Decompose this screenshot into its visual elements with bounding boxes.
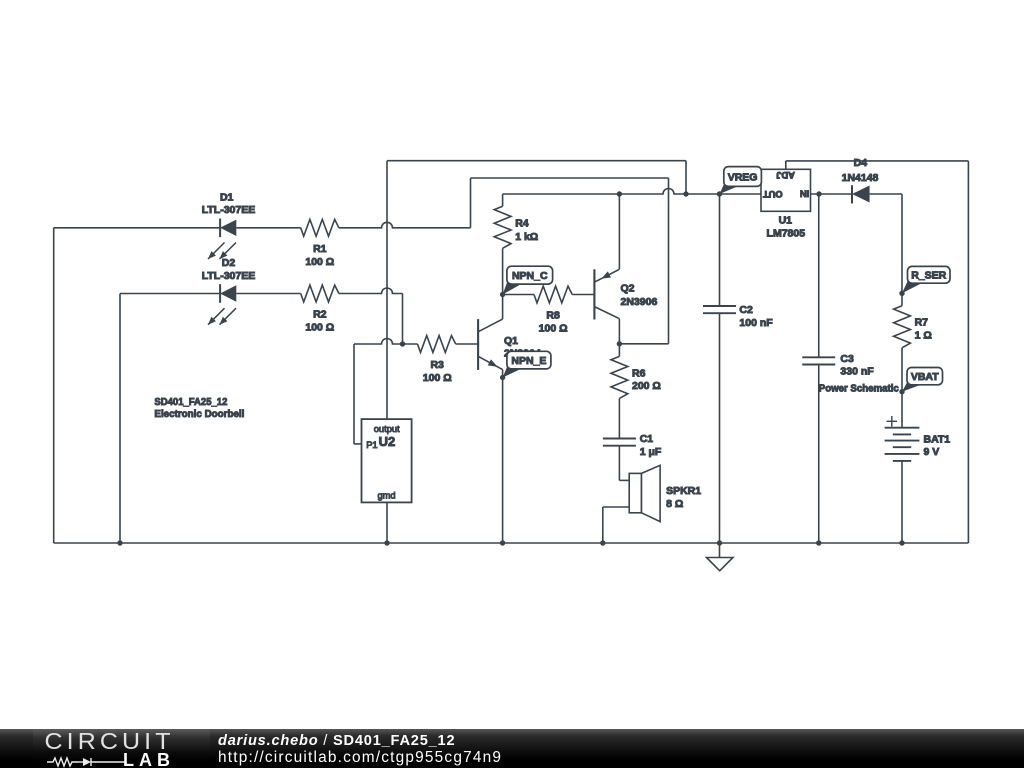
svg-text:R_SER: R_SER bbox=[911, 270, 946, 282]
svg-text:SPKR1: SPKR1 bbox=[666, 485, 701, 497]
svg-text:LM7805: LM7805 bbox=[767, 228, 806, 240]
svg-text:NPN_C: NPN_C bbox=[512, 270, 548, 282]
svg-text:1N4148: 1N4148 bbox=[842, 172, 879, 184]
svg-text:LTL-307EE: LTL-307EE bbox=[202, 204, 255, 216]
svg-text:C3: C3 bbox=[840, 353, 854, 365]
svg-text:VREG: VREG bbox=[728, 171, 758, 183]
svg-text:C2: C2 bbox=[739, 304, 753, 316]
svg-text:Q1: Q1 bbox=[504, 335, 518, 347]
svg-text:U2: U2 bbox=[379, 434, 396, 449]
svg-text:9 V: 9 V bbox=[924, 446, 940, 458]
svg-text:100 Ω: 100 Ω bbox=[539, 323, 568, 335]
svg-text:D1: D1 bbox=[220, 192, 234, 204]
svg-text:1 μF: 1 μF bbox=[640, 446, 662, 458]
svg-text:P1: P1 bbox=[366, 440, 377, 450]
svg-text:330 nF: 330 nF bbox=[840, 366, 874, 378]
svg-text:BAT1: BAT1 bbox=[924, 434, 951, 446]
svg-text:Q2: Q2 bbox=[621, 282, 635, 294]
svg-text:NPN_E: NPN_E bbox=[511, 355, 546, 367]
svg-text:1 kΩ: 1 kΩ bbox=[515, 231, 538, 243]
svg-text:100 Ω: 100 Ω bbox=[305, 256, 334, 268]
svg-text:LTL-307EE: LTL-307EE bbox=[202, 270, 255, 282]
svg-text:100 Ω: 100 Ω bbox=[305, 322, 334, 334]
svg-text:100 Ω: 100 Ω bbox=[423, 372, 452, 384]
svg-text:100 nF: 100 nF bbox=[739, 317, 773, 329]
svg-text:SD401_FA25_12: SD401_FA25_12 bbox=[154, 396, 227, 408]
svg-text:1 Ω: 1 Ω bbox=[915, 329, 932, 341]
svg-text:gmd: gmd bbox=[377, 491, 395, 501]
svg-text:ADJ: ADJ bbox=[776, 170, 795, 180]
svg-text:2N3906: 2N3906 bbox=[621, 296, 658, 308]
svg-text:R3: R3 bbox=[430, 359, 444, 371]
svg-text:200 Ω: 200 Ω bbox=[632, 380, 661, 392]
svg-text:Electronic Doorbell: Electronic Doorbell bbox=[154, 408, 244, 420]
svg-text:OUT: OUT bbox=[763, 189, 783, 199]
svg-text:R8: R8 bbox=[546, 310, 560, 322]
svg-text:D2: D2 bbox=[222, 257, 236, 269]
svg-text:IN: IN bbox=[800, 189, 810, 199]
svg-text:Power Schematic: Power Schematic bbox=[819, 382, 899, 394]
svg-text:R4: R4 bbox=[515, 217, 529, 229]
svg-text:R1: R1 bbox=[313, 243, 327, 255]
svg-text:R7: R7 bbox=[915, 316, 929, 328]
svg-text:C1: C1 bbox=[640, 433, 654, 445]
svg-text:8 Ω: 8 Ω bbox=[666, 498, 683, 510]
svg-text:U1: U1 bbox=[779, 214, 793, 226]
svg-text:VBAT: VBAT bbox=[911, 371, 939, 383]
svg-text:R6: R6 bbox=[632, 368, 646, 380]
svg-text:output: output bbox=[374, 424, 400, 434]
svg-text:R2: R2 bbox=[313, 309, 327, 321]
svg-text:D4: D4 bbox=[854, 157, 868, 169]
